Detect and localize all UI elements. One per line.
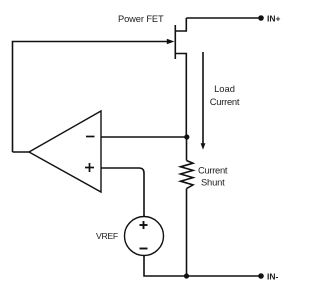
junction node at bottom rail (184, 273, 189, 278)
transistor Q1 Power FET source lead (175, 54, 186, 138)
voltage source VREF plus symbol (140, 221, 148, 229)
svg-text:IN-: IN- (267, 272, 279, 282)
load current annotation arrow (202, 52, 204, 144)
junction node at shunt top (184, 134, 189, 139)
wire noninverting input to VREF top (101, 168, 144, 217)
terminal dot IN+ (258, 15, 264, 21)
op-amp U1 plus symbol (85, 163, 94, 172)
svg-text:Current: Current (198, 165, 228, 176)
resistor R1 current shunt zigzag (181, 161, 194, 189)
voltage source VREF circle (125, 217, 164, 256)
terminal dot IN- (258, 273, 264, 279)
svg-text:Load: Load (214, 83, 235, 94)
op-amp U1 triangle (29, 111, 101, 192)
wire shunt node down to resistor (186, 137, 188, 161)
wire op-amp output (13, 151, 30, 153)
svg-text:IN+: IN+ (267, 14, 281, 24)
wire drain to IN+ terminal (186, 17, 261, 19)
wire VREF bottom to bottom rail (144, 256, 261, 277)
op-amp U1 minus symbol (86, 136, 95, 138)
wire resistor bottom to bottom rail (186, 189, 188, 276)
wire inverting input to shunt node (101, 136, 187, 138)
transistor Q1 Power FET drain lead (175, 18, 186, 31)
voltage source VREF minus symbol (140, 248, 148, 250)
transistor Q1 Power FET channel bar (174, 25, 176, 59)
svg-text:Shunt: Shunt (201, 177, 225, 188)
svg-text:Current: Current (210, 96, 240, 107)
svg-text:VREF: VREF (96, 231, 118, 241)
svg-text:Power FET: Power FET (118, 14, 164, 24)
wire feedback top horizontal (op-amp output to FET gate) (13, 42, 168, 153)
transistor Q1 Power FET gate arrow (167, 39, 175, 44)
